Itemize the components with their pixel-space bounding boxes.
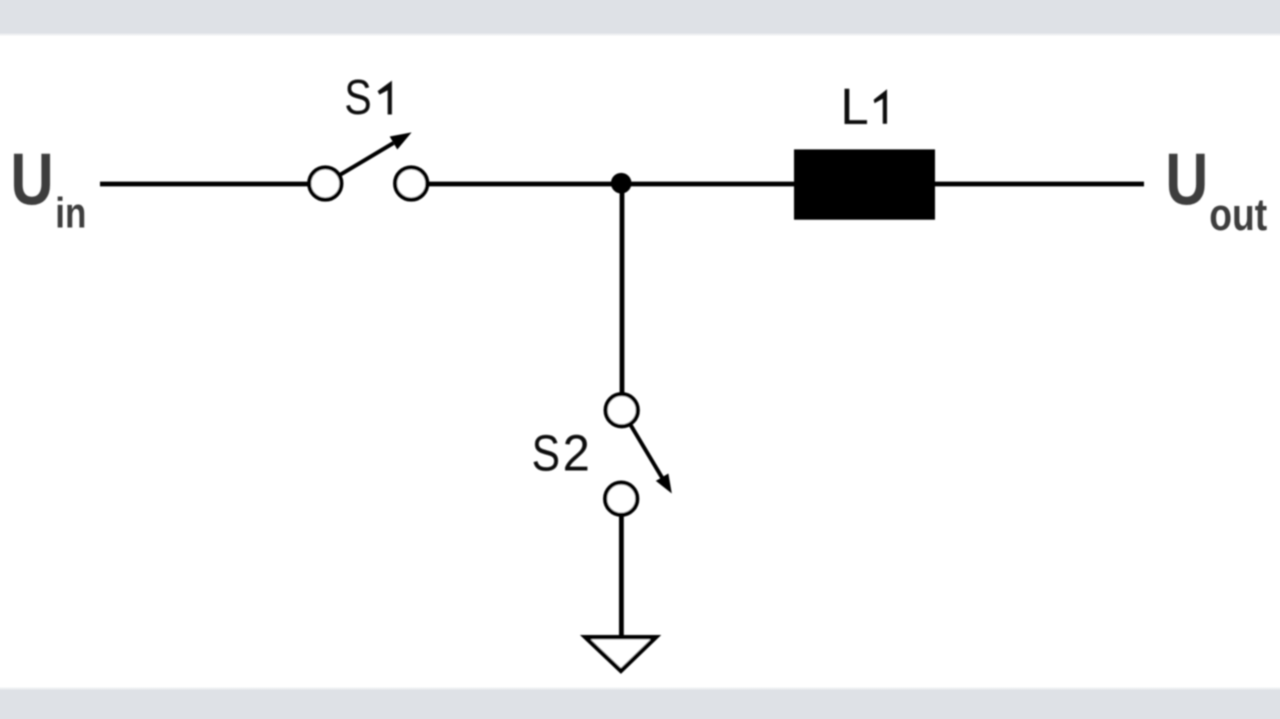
wire: node A down to switch S2 top contact bbox=[620, 184, 625, 394]
svg-text:out: out bbox=[1209, 188, 1267, 239]
switch S2 arrowhead bbox=[656, 474, 672, 494]
inductor L1 bbox=[794, 149, 935, 219]
switch S1 blade bbox=[340, 143, 393, 175]
switch S1 left contact bbox=[309, 167, 341, 199]
svg-text:S: S bbox=[532, 425, 560, 481]
svg-text:S: S bbox=[344, 69, 371, 125]
svg-text:in: in bbox=[55, 190, 86, 237]
top gray band bbox=[0, 0, 1280, 37]
wire: S2 bottom contact down to ground bbox=[619, 515, 624, 639]
switch S2 top contact bbox=[606, 394, 638, 426]
bottom gray band bbox=[0, 687, 1280, 719]
switch S1 arrowhead bbox=[390, 132, 412, 149]
label S1: 1 bbox=[378, 81, 392, 115]
svg-text:U: U bbox=[10, 139, 53, 221]
wire: S1 right contact through node A and L1 to Uout bbox=[427, 182, 1144, 187]
switch S1 right contact bbox=[395, 167, 427, 199]
svg-text:U: U bbox=[1165, 140, 1208, 221]
ground bbox=[585, 637, 656, 671]
label L1: 1 bbox=[874, 89, 887, 124]
node A junction dot bbox=[611, 173, 632, 194]
svg-text:L: L bbox=[840, 78, 868, 135]
switch S2 bottom contact bbox=[605, 483, 637, 515]
svg-text:2: 2 bbox=[563, 425, 590, 482]
wire: Uin to switch S1 left contact bbox=[100, 182, 310, 187]
switch S2 blade bbox=[631, 425, 663, 478]
